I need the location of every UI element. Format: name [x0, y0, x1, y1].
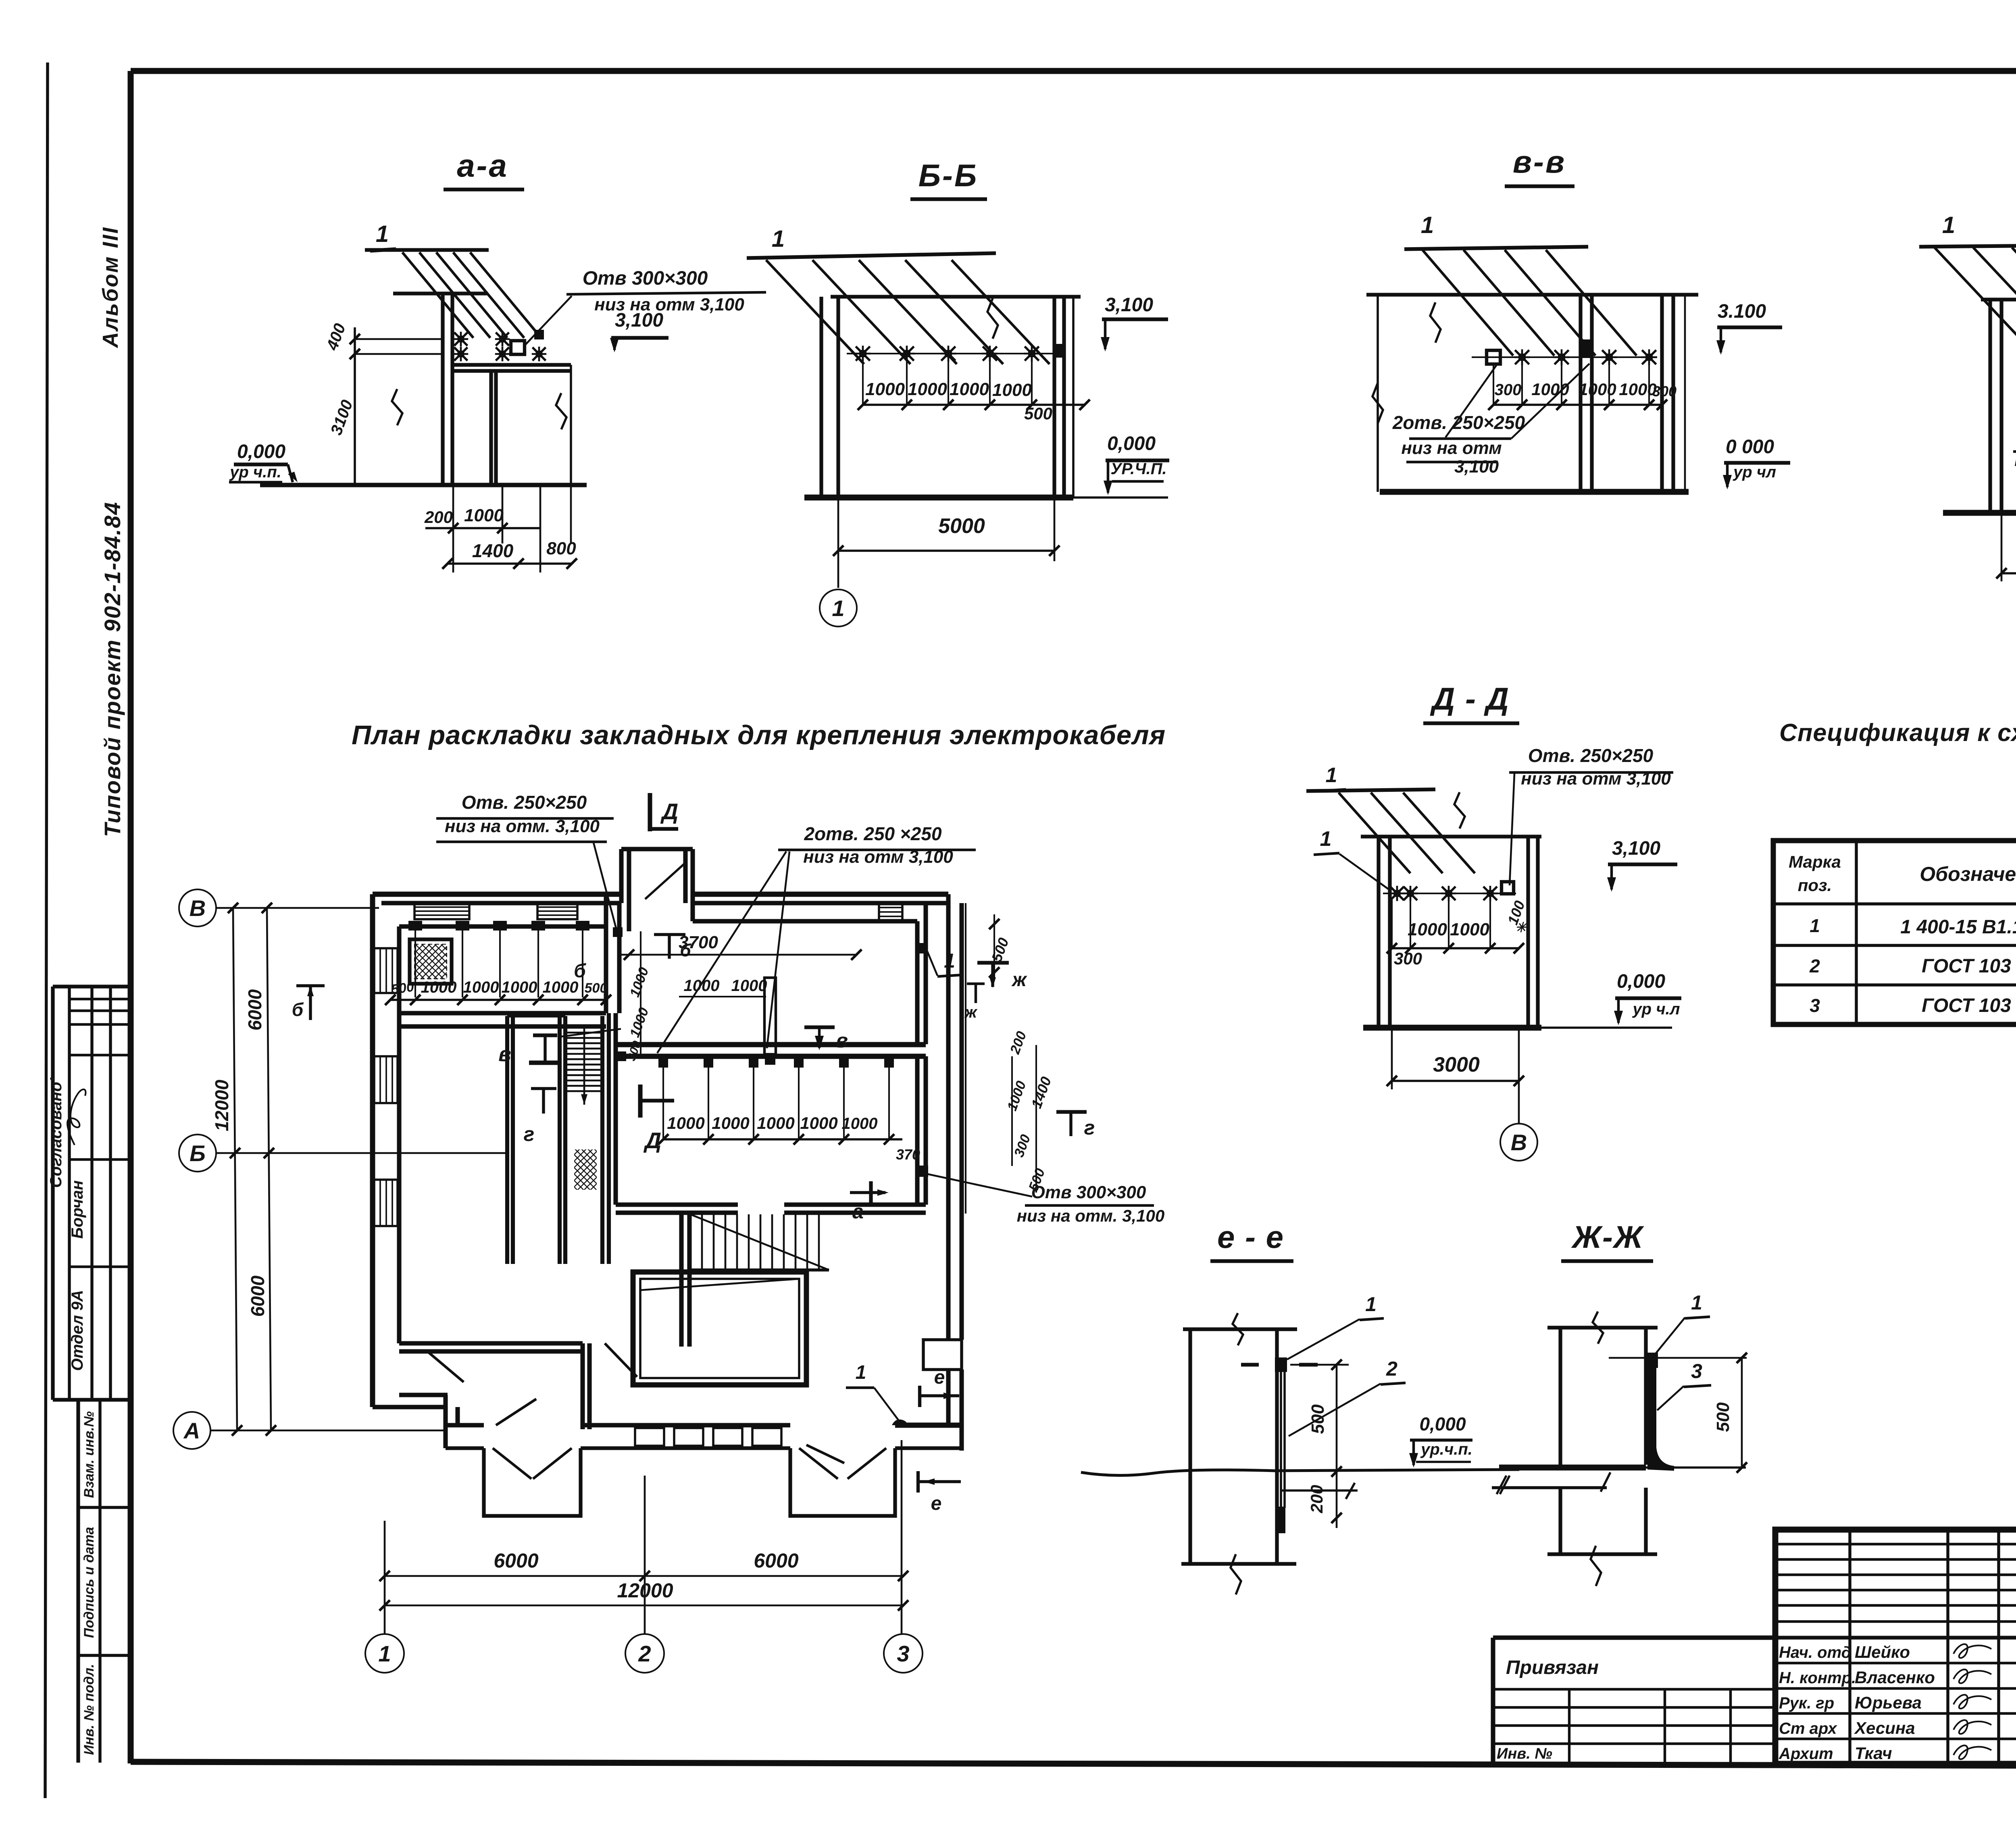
svg-text:Подпись и дата: Подпись и дата	[81, 1527, 97, 1638]
svg-text:1 400-15 В1.120-11: 1 400-15 В1.120-11	[1900, 916, 2016, 938]
svg-text:✳: ✳	[1515, 920, 1528, 935]
svg-text:6000: 6000	[244, 989, 265, 1030]
svg-text:6000: 6000	[494, 1549, 538, 1572]
svg-text:План раскладки закладных для к: План раскладки закладных для крепления э…	[352, 720, 1166, 750]
svg-text:1000: 1000	[1408, 920, 1447, 939]
svg-text:Типовой проект 902-1-84.84: Типовой проект 902-1-84.84	[100, 502, 125, 837]
svg-text:0,000: 0,000	[1107, 433, 1156, 454]
svg-text:1000: 1000	[865, 379, 905, 399]
svg-text:Шейко: Шейко	[1855, 1642, 1910, 1661]
svg-text:300: 300	[1495, 381, 1522, 399]
svg-text:1000: 1000	[842, 1115, 878, 1132]
svg-text:1000: 1000	[684, 977, 720, 995]
svg-text:в: в	[836, 1029, 848, 1052]
svg-text:1000: 1000	[502, 978, 537, 996]
svg-text:низ на отм. 3,100: низ на отм. 3,100	[445, 816, 600, 836]
svg-text:1000: 1000	[464, 506, 504, 525]
svg-text:2отв. 250 ×250: 2отв. 250 ×250	[804, 823, 941, 844]
svg-text:А: А	[183, 1418, 200, 1443]
svg-text:ГОСТ 103 - 76: ГОСТ 103 - 76	[1922, 995, 2016, 1016]
svg-text:200: 200	[424, 508, 453, 527]
svg-text:12000: 12000	[617, 1579, 673, 1602]
svg-text:800: 800	[546, 539, 576, 558]
svg-text:Б-Б: Б-Б	[918, 158, 978, 193]
svg-text:Архит: Архит	[1779, 1745, 1833, 1763]
svg-text:ур ч.п.: ур ч.п.	[229, 463, 281, 481]
svg-text:б: б	[292, 999, 304, 1020]
svg-text:1: 1	[378, 1641, 391, 1666]
svg-text:3,100: 3,100	[1454, 457, 1499, 477]
svg-text:1000: 1000	[950, 379, 989, 399]
svg-text:1: 1	[832, 595, 844, 621]
svg-text:а: а	[852, 1200, 864, 1223]
svg-text:Марка: Марка	[1789, 852, 1841, 871]
svg-text:г: г	[1084, 1116, 1095, 1139]
svg-text:1000: 1000	[731, 977, 767, 995]
svg-text:300: 300	[1394, 949, 1422, 968]
svg-text:3,100: 3,100	[1105, 294, 1153, 316]
svg-text:0,000: 0,000	[237, 441, 285, 462]
svg-text:500: 500	[1308, 1404, 1328, 1434]
svg-text:1000: 1000	[1619, 380, 1656, 399]
svg-text:1: 1	[856, 1362, 866, 1383]
svg-text:3: 3	[897, 1641, 909, 1666]
svg-text:е - е: е - е	[1217, 1219, 1284, 1255]
svg-text:а-а: а-а	[457, 148, 508, 183]
svg-text:1: 1	[1320, 827, 1332, 851]
svg-text:1000: 1000	[667, 1114, 704, 1132]
svg-text:1000: 1000	[543, 978, 579, 996]
svg-text:УР.Ч.П.: УР.Ч.П.	[1110, 460, 1166, 478]
svg-text:1: 1	[1365, 1293, 1377, 1316]
svg-text:1: 1	[1326, 764, 1337, 787]
svg-text:Д: Д	[644, 1128, 661, 1153]
svg-text:500: 500	[1713, 1402, 1733, 1432]
svg-text:1000: 1000	[712, 1114, 749, 1132]
svg-text:Инв. № подл.: Инв. № подл.	[81, 1664, 97, 1755]
svg-text:в-в: в-в	[1513, 144, 1566, 179]
svg-text:Власенко: Власенко	[1855, 1668, 1935, 1687]
svg-text:низ на отм,3,100: низ на отм,3,100	[2014, 450, 2016, 470]
svg-text:Ст арх: Ст арх	[1779, 1720, 1837, 1737]
svg-text:500: 500	[1024, 404, 1052, 423]
svg-text:3.100: 3.100	[1718, 301, 1766, 322]
svg-text:Привязан: Привязан	[1506, 1657, 1599, 1678]
svg-text:Альбом III: Альбом III	[98, 226, 123, 348]
svg-text:низ на отм. 3,100: низ на отм. 3,100	[1017, 1206, 1164, 1225]
svg-text:5000: 5000	[938, 514, 985, 538]
svg-text:200: 200	[1307, 1485, 1326, 1513]
svg-text:1000: 1000	[463, 978, 499, 996]
svg-text:В: В	[190, 895, 206, 921]
svg-text:0,000: 0,000	[1617, 971, 1665, 992]
svg-text:Отв. 250×250: Отв. 250×250	[462, 792, 587, 813]
svg-text:1400: 1400	[472, 540, 514, 561]
svg-text:е: е	[934, 1367, 945, 1388]
svg-text:Б: Б	[190, 1141, 206, 1166]
svg-text:1: 1	[1421, 212, 1434, 238]
svg-text:б: б	[574, 960, 586, 982]
svg-text:г: г	[524, 1123, 535, 1145]
svg-text:6000: 6000	[247, 1275, 268, 1317]
svg-text:ур.ч.п.: ур.ч.п.	[1420, 1441, 1472, 1458]
svg-text:1: 1	[772, 226, 785, 252]
svg-text:ГОСТ 103 - 76: ГОСТ 103 - 76	[1922, 956, 2016, 977]
svg-text:ж: ж	[1011, 969, 1027, 991]
svg-text:1: 1	[1942, 212, 1955, 238]
svg-text:Отв 300×300: Отв 300×300	[1031, 1182, 1146, 1202]
svg-text:Отдел 9А: Отдел 9А	[69, 1290, 86, 1371]
svg-text:3,100: 3,100	[615, 310, 663, 331]
svg-text:Юрьева: Юрьева	[1855, 1693, 1922, 1712]
svg-text:1000: 1000	[992, 380, 1032, 400]
svg-text:ур чл: ур чл	[1733, 463, 1776, 481]
svg-text:Согласовано': Согласовано'	[47, 1077, 65, 1188]
svg-text:е: е	[931, 1493, 942, 1514]
svg-text:1000: 1000	[908, 379, 947, 399]
svg-text:ур ч.л: ур ч.л	[1632, 1000, 1680, 1018]
svg-text:1: 1	[376, 221, 389, 247]
svg-text:6000: 6000	[754, 1549, 798, 1572]
svg-text:1000: 1000	[800, 1114, 837, 1132]
svg-text:низ на отм 3,100: низ на отм 3,100	[803, 847, 953, 867]
svg-text:12000: 12000	[211, 1080, 232, 1131]
svg-text:2: 2	[1386, 1357, 1397, 1380]
svg-text:3,100: 3,100	[1612, 838, 1660, 859]
svg-text:3: 3	[1691, 1360, 1702, 1382]
svg-text:Ж-Ж: Ж-Ж	[1571, 1219, 1644, 1255]
svg-text:2: 2	[638, 1641, 651, 1666]
svg-text:1000: 1000	[757, 1114, 794, 1132]
svg-text:Инв. №: Инв. №	[1497, 1745, 1552, 1762]
svg-text:1000: 1000	[1450, 920, 1489, 939]
svg-text:В: В	[1511, 1130, 1527, 1155]
svg-text:в: в	[498, 1043, 511, 1066]
svg-text:0,000: 0,000	[1419, 1413, 1466, 1434]
svg-text:Рук. гр: Рук. гр	[1779, 1695, 1834, 1712]
svg-text:3700: 3700	[679, 933, 718, 952]
svg-text:3000: 3000	[1433, 1053, 1480, 1076]
svg-text:Отв 300×300: Отв 300×300	[583, 268, 708, 289]
svg-text:низ на отм: низ на отм	[1401, 438, 1502, 458]
svg-text:Отв. 250×250: Отв. 250×250	[1528, 745, 1654, 766]
svg-text:поз.: поз.	[1798, 876, 1832, 895]
svg-text:Д - Д: Д - Д	[1430, 681, 1510, 716]
svg-text:Обозначение: Обозначение	[1920, 863, 2016, 885]
svg-text:низ на отм 3,100: низ на отм 3,100	[1521, 769, 1671, 789]
svg-text:Нач. отд: Нач. отд	[1779, 1644, 1851, 1661]
svg-text:500: 500	[585, 980, 608, 996]
svg-text:1: 1	[1810, 915, 1820, 936]
svg-text:Взам. инв.№: Взам. инв.№	[81, 1411, 97, 1498]
svg-text:Хесина: Хесина	[1854, 1718, 1915, 1737]
svg-text:3: 3	[1810, 995, 1820, 1016]
svg-text:Борчан: Борчан	[69, 1180, 86, 1239]
svg-text:1000: 1000	[1579, 380, 1616, 399]
svg-text:Ткач: Ткач	[1855, 1744, 1892, 1763]
svg-text:Н. контр.: Н. контр.	[1779, 1669, 1856, 1687]
svg-text:2отв. 250×250: 2отв. 250×250	[1392, 412, 1525, 433]
svg-text:Д: Д	[660, 799, 678, 824]
svg-text:Спецификация к схеме расположе: Спецификация к схеме расположения заклад…	[1779, 719, 2016, 746]
svg-text:1: 1	[1691, 1291, 1702, 1314]
svg-text:300: 300	[1652, 383, 1677, 400]
svg-text:0 000: 0 000	[1726, 436, 1774, 458]
svg-text:370: 370	[896, 1146, 920, 1163]
svg-text:2: 2	[1809, 956, 1820, 976]
